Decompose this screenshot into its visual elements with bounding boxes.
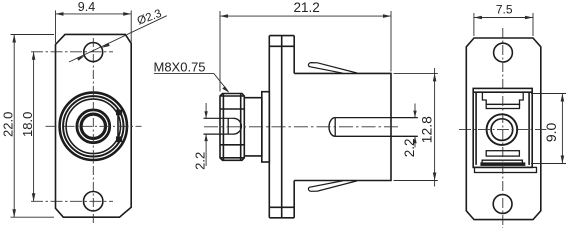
- svg-text:12.8: 12.8: [419, 116, 435, 143]
- svg-text:2.2: 2.2: [192, 152, 207, 170]
- svg-text:21.2: 21.2: [293, 0, 319, 15]
- svg-text:9.4: 9.4: [78, 0, 95, 14]
- svg-text:9.0: 9.0: [543, 122, 559, 142]
- svg-text:22.0: 22.0: [1, 112, 16, 137]
- svg-text:M8X0.75: M8X0.75: [154, 60, 206, 75]
- svg-text:7.5: 7.5: [496, 3, 513, 17]
- svg-text:2.2: 2.2: [402, 139, 417, 158]
- svg-text:18.0: 18.0: [20, 112, 35, 137]
